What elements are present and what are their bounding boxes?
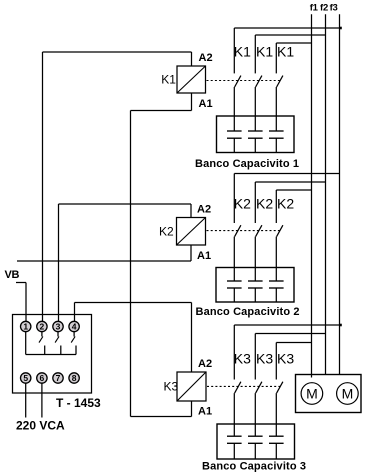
terminal 7	[53, 373, 63, 383]
capacitor lower lead pole 2	[254, 443, 256, 459]
internal switch at terminal x=58	[57, 332, 59, 337]
svg-text:K2: K2	[159, 225, 174, 239]
timer T-1453 box	[13, 315, 92, 394]
capacitor plates pole 2	[248, 130, 263, 132]
contact K3 pole 2 lower lead	[254, 393, 256, 436]
capacitor plates pole 1	[227, 435, 242, 437]
terminal 2	[37, 321, 47, 331]
wire K1 A1 horizontal	[131, 110, 192, 112]
svg-text:T - 1453: T - 1453	[56, 396, 101, 410]
motor box	[296, 375, 362, 413]
capacitor lower lead pole 2	[254, 288, 256, 302]
svg-text:3: 3	[56, 322, 61, 332]
svg-text:K2: K2	[277, 196, 294, 212]
wire K1 A2 stub	[191, 52, 193, 66]
internal switch at terminal x=74.1	[73, 332, 75, 337]
svg-text:f1: f1	[310, 3, 319, 14]
svg-text:A1: A1	[199, 98, 213, 110]
contact K1 pole 3 upper lead	[275, 43, 277, 73]
capacitor plates pole 3	[269, 280, 284, 282]
contact K3 pole 2 upper lead	[254, 334, 256, 380]
terminal 8	[69, 373, 79, 383]
svg-text:K3: K3	[277, 351, 294, 367]
wire K2bank contact3 to f1	[276, 189, 311, 191]
svg-text:f3: f3	[330, 3, 338, 14]
terminal 6	[37, 373, 47, 383]
svg-text:Banco Capacivito 1: Banco Capacivito 1	[195, 158, 299, 170]
contact K1 pole 2 upper lead	[254, 35, 256, 73]
terminal 4	[69, 321, 79, 331]
wire K3 A1 horizontal	[131, 416, 192, 418]
capacitor plates pole 3	[269, 435, 284, 437]
contact K2 pole 1 lower lead	[233, 237, 235, 281]
svg-text:2: 2	[40, 322, 45, 332]
wire K1bank contact1 to f3	[234, 27, 339, 29]
contact K3 pole 1 upper lead	[233, 325, 235, 380]
capacitor plates pole 1	[227, 280, 242, 282]
contact K2 pole 2 upper lead	[254, 182, 256, 223]
capacitor lower lead pole 3	[275, 138, 277, 152]
wire K1 A1 stub	[191, 93, 193, 111]
wire f3 vertical	[339, 14, 341, 374]
capacitor lower lead pole 3	[275, 288, 277, 302]
capacitor lower lead pole 2	[254, 138, 256, 152]
wire left vertical to terminal 2	[42, 52, 44, 321]
svg-text:5: 5	[23, 373, 28, 383]
svg-text:K1: K1	[256, 43, 273, 59]
capacitor bank box K2bank	[216, 268, 294, 303]
junction K3bank on f3	[340, 324, 342, 327]
wire terminal6 down	[41, 383, 43, 417]
terminal 5	[21, 373, 31, 383]
contact K1 pole 1 upper lead	[233, 28, 235, 73]
wire K1bank contact3 to f1	[276, 42, 311, 44]
dashed link coil K3 to contacts	[207, 385, 280, 387]
svg-text:K1: K1	[161, 73, 176, 87]
wire K2bank contact1 to f3	[234, 173, 339, 175]
terminal 1	[21, 321, 31, 331]
contact K1 pole 2 lower lead	[254, 87, 256, 131]
svg-text:A2: A2	[199, 52, 213, 64]
motor M1	[301, 383, 323, 405]
svg-text:6: 6	[40, 373, 45, 383]
contact K1 pole 3 switch blade	[277, 76, 283, 87]
svg-text:220 VCA: 220 VCA	[16, 419, 65, 433]
dashed link coil K1 to contacts	[207, 80, 281, 82]
svg-text:VB: VB	[5, 269, 20, 281]
motor M2	[337, 383, 359, 405]
capacitor lower lead pole 1	[233, 288, 235, 302]
contact K3 pole 1 switch blade	[235, 382, 241, 393]
svg-text:K3: K3	[164, 380, 179, 394]
wire f2 vertical	[325, 14, 327, 374]
contact K2 pole 2 lower lead	[254, 237, 256, 281]
contact K3 pole 2 switch blade	[256, 382, 262, 393]
contact K2 pole 2 switch blade	[256, 225, 262, 236]
capacitor plates pole 3	[269, 130, 284, 132]
contact K2 pole 1 switch blade	[235, 225, 241, 236]
coil K2 box	[177, 218, 206, 246]
svg-text:A1: A1	[197, 250, 211, 262]
contact K1 pole 1 lower lead	[233, 87, 235, 131]
capacitor bank box K3bank	[217, 424, 295, 459]
wire VB to terminal 1	[25, 283, 27, 322]
svg-text:7: 7	[56, 373, 61, 383]
wire K3bank contact2 to f2	[255, 333, 325, 335]
svg-text:K2: K2	[256, 196, 273, 212]
capacitor lower lead pole 1	[233, 138, 235, 152]
svg-text:f2: f2	[320, 3, 328, 14]
junction K1bank on f3	[340, 27, 342, 30]
wire VB horizontal	[16, 282, 26, 284]
svg-text:K2: K2	[234, 196, 251, 212]
dashed link coil K2 to contacts	[207, 230, 281, 232]
wire K2 A2 stub	[190, 204, 192, 218]
wire K2 A1 stub	[190, 245, 192, 261]
capacitor lower lead pole 1	[233, 443, 235, 459]
svg-text:A2: A2	[197, 203, 211, 215]
svg-text:Banco Capacivito 2: Banco Capacivito 2	[196, 306, 300, 318]
contact K2 pole 3 switch blade	[277, 225, 283, 236]
terminal1 internal lead	[25, 332, 27, 355]
capacitor plates pole 2	[248, 280, 263, 282]
internal switch fixed stub x=76	[75, 346, 77, 355]
capacitor lower lead pole 3	[275, 443, 277, 459]
svg-text:K1: K1	[277, 43, 294, 59]
contact K1 pole 2 switch blade	[256, 76, 262, 87]
wire K3 A2 vertical	[191, 303, 193, 373]
wire terminal5 down	[25, 383, 27, 417]
wire K2bank contact2 to f2	[255, 181, 325, 183]
svg-text:M: M	[342, 385, 354, 401]
wire K1bank contact2 to f2	[255, 34, 325, 36]
contact K3 pole 1 lower lead	[233, 393, 235, 436]
wire K2 A1 horizontal to VB stub	[17, 260, 191, 262]
wire K3 A1 stub	[191, 401, 193, 417]
contact K1 pole 1 switch blade	[235, 76, 241, 87]
svg-text:A2: A2	[198, 358, 212, 370]
svg-text:K3: K3	[234, 351, 251, 367]
wire K3bank contact3 to f1	[276, 342, 311, 344]
contact K3 pole 3 upper lead	[275, 343, 277, 380]
wire K3bank contact1 to f3	[234, 324, 339, 326]
wire K2 A2 top horizontal	[59, 203, 192, 205]
capacitor bank box K1bank	[217, 116, 295, 153]
svg-text:A1: A1	[198, 406, 212, 418]
contact K2 pole 1 upper lead	[233, 174, 235, 224]
internal switch fixed stub x=60.8	[60, 346, 62, 355]
svg-text:K1: K1	[234, 43, 251, 59]
contact K2 pole 3 upper lead	[275, 190, 277, 223]
wire terminal4 horizontal	[75, 302, 192, 304]
capacitor plates pole 2	[248, 435, 263, 437]
svg-text:4: 4	[72, 322, 77, 332]
internal common bus	[26, 354, 76, 356]
wire A1 bus vertical (K1 to K3)	[130, 111, 132, 417]
wire f1 vertical	[311, 14, 313, 374]
wire K1 A2 top horizontal	[43, 51, 192, 53]
coil K1 box	[177, 66, 206, 93]
capacitor plates pole 1	[227, 130, 242, 132]
wire to terminal 3	[58, 204, 60, 321]
contact K3 pole 3 lower lead	[275, 393, 277, 436]
svg-text:1: 1	[23, 322, 28, 332]
wire to terminal 4	[74, 303, 76, 322]
svg-text:8: 8	[72, 373, 77, 383]
svg-text:M: M	[306, 385, 318, 401]
wire f1 into motor box	[311, 375, 313, 378]
contact K1 pole 3 lower lead	[275, 87, 277, 131]
internal switch fixed stub x=44.7	[44, 346, 46, 355]
contact K2 pole 3 lower lead	[275, 237, 277, 281]
svg-text:K3: K3	[256, 351, 273, 367]
contact K3 pole 3 switch blade	[277, 382, 283, 393]
coil K3 box	[177, 372, 206, 401]
internal switch at terminal x=41.9	[41, 332, 43, 337]
svg-text:Banco Capacivito 3: Banco Capacivito 3	[202, 461, 306, 473]
terminal 3	[53, 321, 63, 331]
